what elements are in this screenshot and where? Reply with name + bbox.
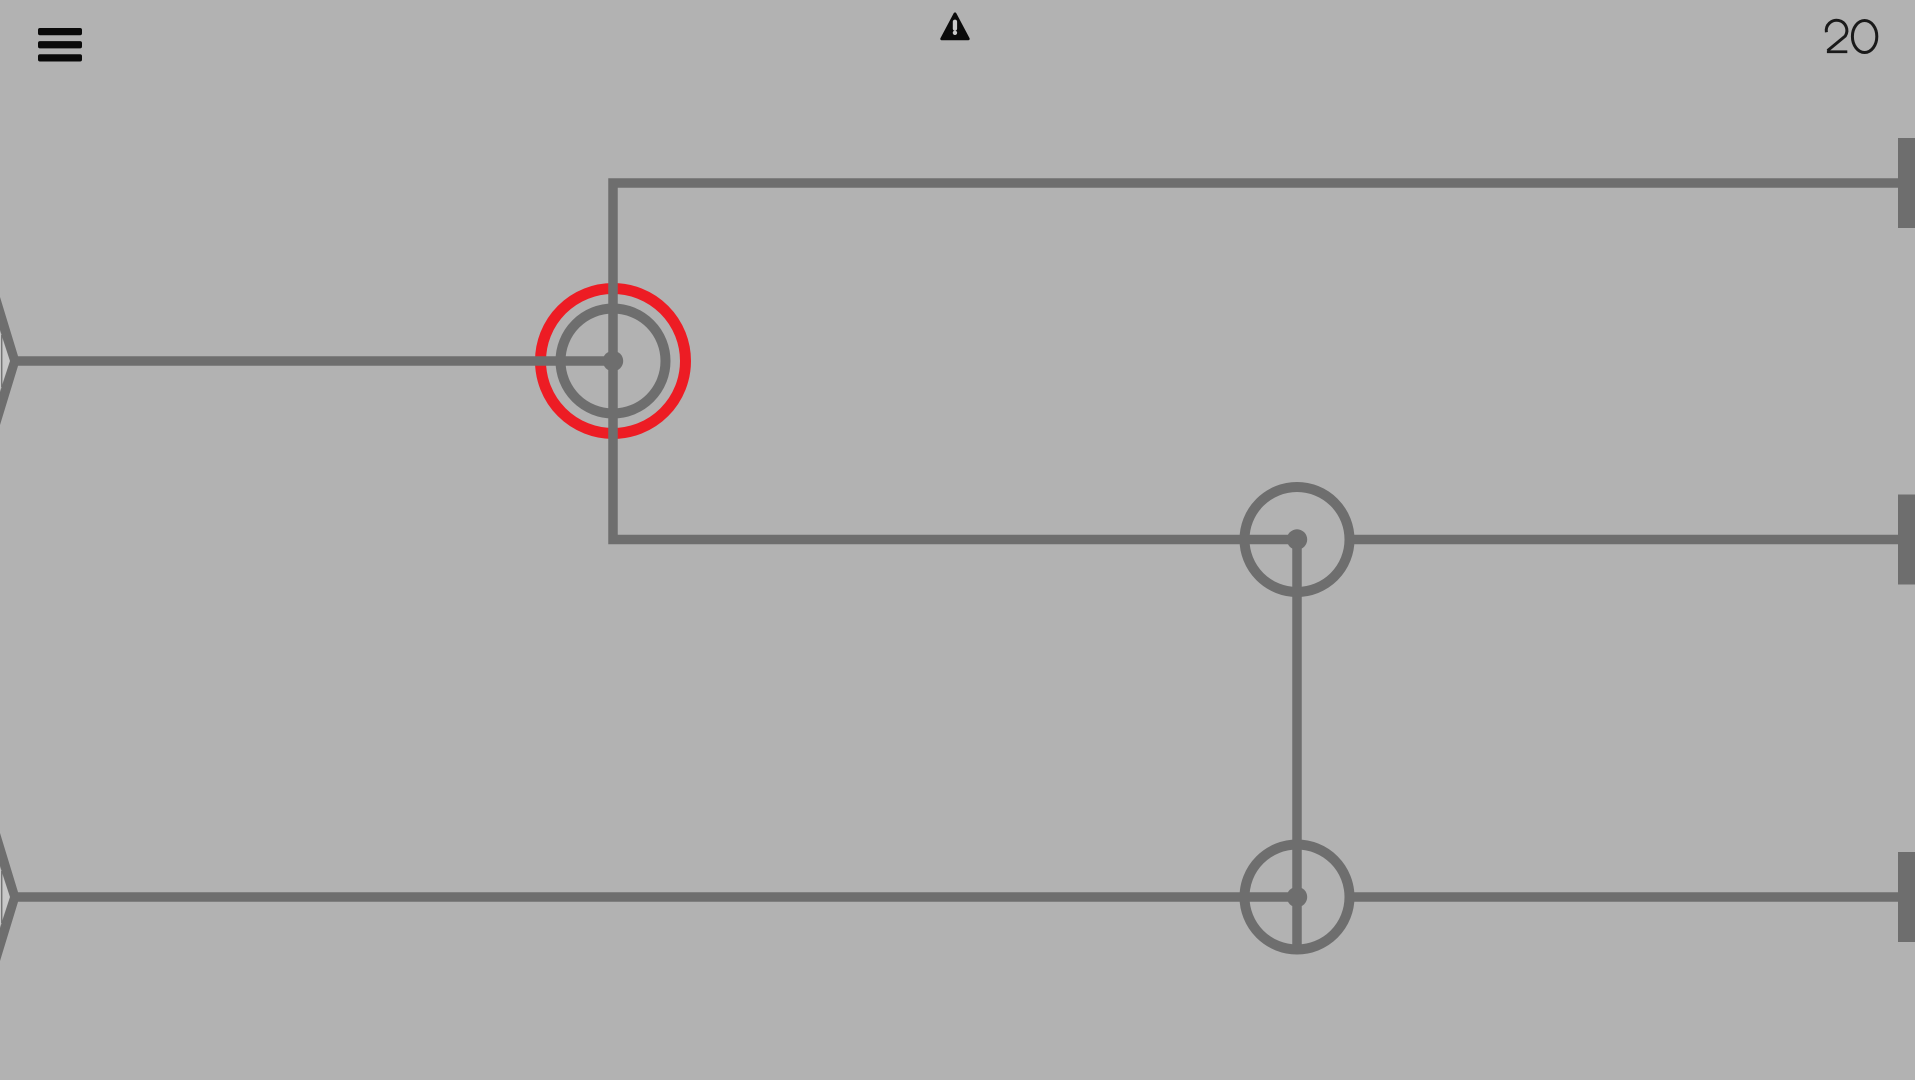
wire left into node A: [12, 356, 613, 366]
right endpoint bar bottom: [1898, 852, 1915, 942]
right endpoint bar middle: [1898, 495, 1915, 585]
warning icon: [942, 14, 968, 39]
menu icon: [38, 28, 82, 62]
node A ring: [561, 309, 666, 414]
node A center dot: [603, 351, 623, 371]
node B center dot: [1287, 529, 1307, 549]
wire node B right to endpoint bar: [1347, 535, 1905, 545]
node A red highlight ring: [541, 289, 686, 434]
left arrow connector lower: [0, 833, 20, 961]
move counter 20: [1826, 20, 1877, 52]
wire vertical node B to node C: [1292, 540, 1302, 898]
wire bottom left into node C: [12, 892, 1297, 902]
node C ring: [1245, 845, 1350, 950]
wire node C right to endpoint bar: [1347, 892, 1905, 902]
node B ring: [1245, 487, 1350, 592]
right endpoint bar top: [1898, 138, 1915, 228]
left arrow connector upper: [0, 297, 20, 425]
wire top L-path: corner (613,183) to node B dot: [613, 183, 1905, 540]
wire node C bottom stub: [1292, 897, 1302, 950]
node C center dot: [1287, 887, 1307, 907]
